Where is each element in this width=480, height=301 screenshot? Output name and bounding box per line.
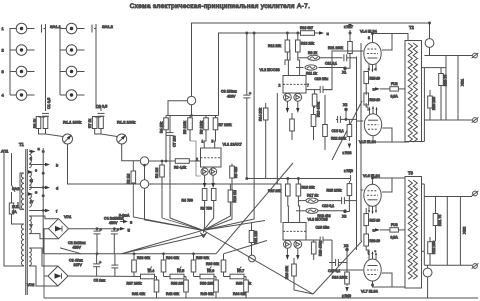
- svg-text:R13 20k: R13 20k: [301, 42, 314, 46]
- svg-text:II: II: [30, 157, 32, 161]
- resistor R18g: [323, 125, 328, 137]
- svg-text:АП1: АП1: [1, 150, 8, 154]
- wire VD2 gnd: [44, 254, 48, 298]
- pentode VL4: [364, 39, 381, 73]
- capacitor C7: [167, 133, 174, 136]
- svg-text:R16 20k: R16 20k: [302, 186, 315, 190]
- tap c: [29, 171, 31, 173]
- triode VL3: [283, 223, 306, 241]
- svg-text:I: I: [18, 202, 19, 206]
- capacitor C2: [94, 231, 101, 234]
- resistor R18a feed: [301, 31, 315, 36]
- wire fan 3: [170, 218, 204, 231]
- arrow k R38: [348, 144, 351, 149]
- svg-text:VL6: VL6: [208, 269, 214, 273]
- svg-text:R27-10: R27-10: [370, 219, 381, 223]
- svg-text:f: f: [56, 209, 58, 214]
- capacitor C3: [93, 264, 100, 267]
- T1 secondary winding a-c: [29, 150, 31, 168]
- resistor R7: [215, 116, 217, 119]
- potentiometer R39: [200, 274, 214, 279]
- svg-text:R10 1M: R10 1M: [233, 190, 237, 202]
- switch SA2: [12, 185, 16, 192]
- svg-text:T3: T3: [408, 171, 414, 176]
- svg-text:R4 15k: R4 15k: [160, 122, 164, 133]
- svg-text:R35 62k: R35 62k: [196, 256, 209, 260]
- svg-text:1: 1: [368, 249, 370, 253]
- capacitor C5: [111, 265, 118, 268]
- resistor R30 fb: [428, 96, 433, 108]
- wire VL3 pins: [287, 248, 297, 255]
- svg-text:a: a: [38, 146, 41, 151]
- wire to VL3: [149, 184, 281, 223]
- svg-text:R44 62k: R44 62k: [233, 292, 246, 296]
- resistor R2i: [43, 117, 48, 129]
- terminal XS1.2: [472, 117, 479, 122]
- wire to VL1: [145, 161, 201, 180]
- capacitor C10: [320, 86, 323, 93]
- wire out mid: [422, 56, 459, 121]
- capacitor C9: [98, 113, 105, 116]
- capacitor C13: [342, 197, 345, 204]
- svg-text:R17 1k: R17 1k: [307, 194, 318, 198]
- wire VL7 anode to T3: [373, 283, 409, 287]
- resistor R33: [132, 260, 137, 272]
- wire x277: [276, 93, 278, 184]
- svg-text:R7 120k: R7 120k: [219, 123, 232, 127]
- svg-text:+: +: [117, 227, 120, 232]
- wire VL5 screen: [382, 128, 392, 142]
- wire T2 sec bottom: [422, 120, 425, 142]
- jack XS1.4: [16, 90, 34, 101]
- resistor R42: [184, 280, 189, 292]
- svg-text:3: 3: [2, 69, 5, 74]
- wire C9 to pot: [100, 115, 102, 118]
- resistor R6: [205, 116, 207, 119]
- svg-text:XS1: XS1: [461, 79, 465, 86]
- svg-text:R7 1k: R7 1k: [88, 119, 92, 128]
- wire vertical x253: [204, 33, 255, 230]
- resistor R13: [296, 40, 301, 52]
- terminal XS2.1: [472, 191, 479, 196]
- potentiometer R37: [141, 274, 155, 279]
- svg-text:X4: X4: [344, 244, 348, 248]
- svg-text:R11 1k: R11 1k: [306, 72, 317, 76]
- svg-text:R24 100k: R24 100k: [332, 276, 347, 280]
- wire fan 2: [121, 230, 206, 254]
- svg-text:R29 75: R29 75: [444, 75, 448, 86]
- node dots misc: [429, 22, 431, 24]
- wire VL2 top pins: [288, 71, 299, 76]
- fuse FU1: [9, 203, 13, 214]
- svg-text:R42 62k: R42 62k: [166, 292, 179, 296]
- wire VL6 screen: [382, 178, 392, 192]
- wire T3 sec top: [422, 184, 425, 197]
- tap d: [29, 187, 48, 189]
- svg-text:R37 100k: R37 100k: [127, 282, 142, 286]
- svg-text:0,5A: 0,5A: [391, 95, 399, 99]
- wire out2 top: [424, 196, 472, 198]
- wire VD2 out: [68, 275, 141, 278]
- lamp HL2: [423, 268, 432, 277]
- resistor R9 cathode: [230, 166, 235, 178]
- svg-text:R43 62k: R43 62k: [201, 292, 214, 296]
- wire heater bus: [42, 148, 44, 254]
- node input circle 2: [140, 180, 148, 188]
- resistor R21: [348, 42, 353, 54]
- T1 secondary winding f: [29, 194, 31, 207]
- resistor R31 fb: [433, 214, 438, 226]
- svg-text:SA2: SA2: [12, 187, 19, 191]
- svg-text:FU3: FU3: [391, 223, 398, 227]
- wire vertical x244: [246, 33, 248, 179]
- svg-text:5: 5: [212, 140, 214, 144]
- svg-text:450V: 450V: [73, 246, 82, 250]
- resistor R26: [311, 242, 316, 254]
- resistor R15c: [290, 119, 295, 131]
- triode VL2: [283, 76, 306, 94]
- resistor R26 cath: [364, 93, 369, 105]
- svg-text:R21 100k: R21 100k: [328, 46, 343, 50]
- resistor R27 cath: [364, 214, 369, 226]
- svg-text:T1: T1: [19, 142, 25, 147]
- svg-text:4: 4: [2, 93, 5, 98]
- svg-text:к R40: к R40: [342, 294, 351, 298]
- svg-text:2: 2: [2, 48, 5, 53]
- wire gnd circle2: [145, 188, 204, 230]
- svg-text:+: +: [100, 227, 103, 232]
- svg-text:400V: 400V: [227, 95, 236, 99]
- wire left chain col2: [60, 29, 66, 96]
- wire x192 R5 to VL1: [190, 141, 201, 176]
- rectifier VD2: [48, 266, 68, 286]
- resistor R16: [296, 184, 301, 196]
- resistor R10 1M: [228, 190, 233, 202]
- resistor R14: [263, 108, 268, 120]
- wire feedback verticals: [357, 43, 362, 250]
- resistor R22: [347, 125, 352, 137]
- pentode VL6: [364, 180, 381, 214]
- resistor R23: [292, 264, 297, 276]
- svg-text:X3: X3: [342, 215, 346, 219]
- resistor R12: [285, 40, 290, 52]
- resistor R2b 1M: [131, 171, 136, 183]
- wire x166 down: [162, 130, 166, 165]
- svg-text:R14 20k: R14 20k: [259, 108, 263, 121]
- resistor R2 grid: [160, 165, 165, 177]
- svg-text:R5 120k: R5 120k: [183, 121, 187, 134]
- resistor R10i: [99, 117, 104, 129]
- rectifier VD1: [49, 219, 69, 239]
- svg-text:Схема электрическая-принципиал: Схема электрическая-принципиальная усили…: [130, 3, 311, 10]
- svg-text:C5 1мк: C5 1мк: [94, 279, 106, 283]
- potentiometer R38: [170, 274, 184, 279]
- terminal XS2.2: [472, 263, 479, 268]
- node filter circle: [187, 96, 195, 104]
- svg-text:R20 470k: R20 470k: [319, 241, 323, 256]
- svg-text:R25 100k: R25 100k: [327, 189, 342, 193]
- svg-text:к R38: к R38: [343, 151, 352, 155]
- svg-text:C11 0,1: C11 0,1: [325, 62, 337, 66]
- svg-text:SA1.1: SA1.1: [50, 24, 62, 29]
- wire R7 to VL1: [214, 130, 217, 148]
- wire VD1 gnd: [44, 229, 49, 254]
- node input circle 1: [140, 157, 148, 165]
- svg-text:R9 4k3: R9 4k3: [234, 167, 238, 178]
- svg-text:R30 260: R30 260: [432, 97, 436, 110]
- arrow k R40: [345, 287, 348, 292]
- svg-text:C13 0,1: C13 0,1: [322, 204, 334, 208]
- svg-text:C1 0,5: C1 0,5: [47, 98, 51, 109]
- resistor R32 fb: [428, 242, 433, 254]
- pentode VL5: [364, 106, 381, 140]
- svg-text:450V: 450V: [109, 221, 118, 225]
- svg-text:R34 62k: R34 62k: [166, 256, 179, 260]
- resistor R8 cathode: [211, 189, 216, 201]
- svg-text:XS2: XS2: [463, 227, 467, 234]
- wire bottom rail: [44, 297, 478, 299]
- switch SA1.2: [91, 25, 93, 33]
- svg-text:107V: 107V: [74, 263, 83, 267]
- svg-text:C9 0,5: C9 0,5: [96, 105, 107, 109]
- svg-text:R39 100k: R39 100k: [200, 282, 215, 286]
- svg-text:R1.2 100k: R1.2 100k: [117, 120, 135, 125]
- jack XS2.1: [66, 23, 84, 34]
- resistor R43: [214, 280, 219, 292]
- wire C10 to VL4 grid: [323, 51, 363, 90]
- wire B+ rail 2: [219, 33, 302, 116]
- resistor R34: [161, 260, 166, 272]
- wire fan 7: [332, 101, 362, 160]
- svg-text:u: u: [327, 31, 329, 36]
- wire to VL5 grid: [357, 120, 364, 122]
- arrow k R39: [350, 175, 352, 181]
- svg-text:u: u: [373, 229, 375, 233]
- svg-text:+: +: [99, 260, 102, 265]
- svg-text:c: c: [35, 168, 37, 173]
- wire mains to T1: [20, 173, 24, 209]
- svg-text:R31 75: R31 75: [438, 215, 442, 226]
- wire bus col2: [96, 24, 101, 111]
- svg-text:u: u: [130, 221, 132, 225]
- capacitor C11: [344, 54, 347, 61]
- svg-text:R21 1k5: R21 1k5: [254, 231, 258, 244]
- T1 secondary winding d-e: [29, 172, 31, 190]
- T1 secondary winding anode1: [29, 216, 31, 234]
- resistor R35: [191, 260, 196, 272]
- svg-text:C16 15м: C16 15м: [316, 226, 330, 230]
- node gnd circle: [249, 255, 256, 262]
- svg-text:u: u: [373, 88, 375, 92]
- svg-text:R25-10: R25-10: [370, 77, 381, 81]
- tap e: [29, 193, 31, 195]
- svg-text:VL5: VL5: [178, 269, 184, 273]
- svg-text:VD1: VD1: [64, 215, 71, 219]
- resistor R21k: [249, 231, 254, 243]
- wire VL7 screen: [382, 273, 392, 287]
- resistor R25 cath: [364, 72, 369, 84]
- svg-text:C3 47мк: C3 47мк: [69, 259, 83, 263]
- svg-text:R6 120k: R6 120k: [200, 121, 204, 134]
- lamp HL1: [425, 39, 434, 48]
- svg-text:7: 7: [307, 84, 309, 88]
- arrow k R37: [349, 30, 351, 38]
- svg-text:VL2 ECC88: VL2 ECC88: [260, 68, 280, 72]
- wire bias rail: [224, 241, 268, 254]
- svg-text:u: u: [128, 228, 131, 233]
- wire x267: [265, 103, 267, 179]
- wire pot2 down: [122, 144, 141, 161]
- resistor R4: [165, 116, 167, 119]
- svg-text:VL4: VL4: [148, 269, 154, 273]
- capacitor C8: [243, 95, 250, 98]
- svg-text:R6 1k: R6 1k: [308, 51, 317, 55]
- resistor R5h: [175, 159, 189, 164]
- wire star right: [204, 221, 266, 231]
- wire B+ rail top: [192, 23, 431, 96]
- svg-text:T2: T2: [409, 25, 415, 30]
- svg-text:R15 20k: R15 20k: [268, 189, 281, 193]
- wire gnd rail mid: [44, 253, 216, 255]
- wire R6 to VL1: [204, 130, 206, 148]
- svg-text:R28-10: R28-10: [370, 239, 381, 243]
- resistor R11i: [92, 117, 97, 129]
- resistor R36: [221, 260, 226, 272]
- wire VL4 anode to T2: [373, 34, 409, 43]
- wire fan 4: [204, 231, 314, 295]
- jack XS1.2: [16, 45, 34, 56]
- svg-text:C7 200: C7 200: [173, 136, 177, 147]
- svg-text:VL7: VL7: [238, 269, 244, 273]
- svg-text:0-1mA: 0-1mA: [119, 214, 130, 218]
- resistor R25: [347, 184, 352, 196]
- wire VD1 out2: [69, 228, 124, 230]
- jack XS2.2: [66, 45, 84, 56]
- wire bus col1: [45, 24, 47, 111]
- wire fan 1: [60, 248, 81, 254]
- triode VL1: [201, 148, 222, 167]
- resistor R9: [308, 55, 320, 60]
- svg-text:d: d: [56, 186, 58, 191]
- svg-text:VL4 EL34: VL4 EL34: [360, 30, 377, 34]
- svg-text:R41 62k: R41 62k: [132, 292, 145, 296]
- capacitor C4: [111, 231, 118, 234]
- wire fan 6: [216, 163, 293, 254]
- svg-text:FU2: FU2: [391, 82, 398, 86]
- svg-text:SA1.2: SA1.2: [102, 24, 114, 29]
- wire VL1 cathode pins: [205, 175, 214, 183]
- wire winding to VD2: [29, 248, 58, 286]
- potentiometer R1.1: [63, 134, 73, 144]
- svg-text:1: 1: [202, 140, 204, 144]
- svg-text:VD2: VD2: [27, 283, 34, 287]
- svg-text:R32 260: R32 260: [432, 241, 436, 254]
- resistor R3i: [36, 117, 41, 129]
- svg-text:3: 3: [368, 36, 370, 40]
- svg-text:III: III: [30, 179, 33, 183]
- wire VL2 region lines: [298, 56, 300, 58]
- svg-text:R18 0k7: R18 0k7: [300, 26, 313, 30]
- fuse FU3: [390, 228, 399, 232]
- capacitor C12: [338, 116, 341, 123]
- capacitor C14: [320, 237, 323, 244]
- tap f: [29, 210, 48, 212]
- svg-text:VL7 EL34: VL7 EL34: [361, 290, 378, 294]
- svg-text:+: +: [249, 91, 252, 96]
- svg-text:VL1 12AX7: VL1 12AX7: [223, 143, 242, 147]
- wire out2 bottom: [424, 264, 472, 266]
- svg-text:2: 2: [279, 84, 281, 88]
- wire VL6 anode to T3: [373, 178, 409, 184]
- svg-text:0,5A: 0,5A: [391, 236, 399, 240]
- wire VL2 anodes up: [285, 50, 290, 66]
- svg-text:R8 750: R8 750: [201, 207, 212, 211]
- fuse FU2: [390, 87, 399, 91]
- jack XS2.4: [66, 90, 84, 101]
- svg-text:R22 160k: R22 160k: [331, 137, 346, 141]
- wire winding to VD1: [29, 216, 58, 239]
- svg-text:R2 1M: R2 1M: [155, 168, 159, 178]
- wire pot links R: [95, 117, 117, 137]
- wire C14 to VL7 grid: [332, 240, 363, 270]
- svg-text:C2 2x22мк: C2 2x22мк: [68, 241, 86, 245]
- svg-text:к R39: к R39: [344, 169, 353, 173]
- svg-text:e: e: [35, 190, 38, 195]
- capacitor C1: [42, 113, 49, 116]
- svg-text:b: b: [56, 163, 59, 168]
- wire fan 5: [313, 241, 362, 294]
- wire left chain col1: [10, 29, 16, 96]
- wire VL4 screen: [382, 34, 392, 51]
- potentiometer R1.2: [117, 134, 127, 144]
- wire pot1 down: [68, 144, 141, 184]
- wire circle down: [166, 101, 219, 116]
- jack XS2.3: [66, 66, 84, 77]
- resistor R41: [154, 280, 159, 292]
- T1 primary winding: [21, 173, 24, 209]
- terminal XS1.1: [472, 53, 479, 58]
- svg-text:R23 20k: R23 20k: [285, 266, 289, 279]
- svg-text:IV: IV: [30, 200, 34, 204]
- svg-text:c: c: [375, 249, 377, 253]
- wire C1 to pot: [45, 115, 47, 118]
- tap b: [29, 164, 48, 166]
- resistor R5: [189, 116, 191, 119]
- svg-text:R26-10: R26-10: [370, 98, 381, 102]
- svg-text:R12 20k: R12 20k: [268, 44, 281, 48]
- resistor R44: [244, 280, 249, 292]
- node X3: [344, 210, 347, 213]
- resistor R15: [286, 184, 291, 196]
- svg-text:R2 1M: R2 1M: [126, 174, 130, 184]
- wire out2 mid: [422, 197, 461, 266]
- resistor R24: [345, 272, 350, 284]
- switch SA1.1: [41, 25, 43, 33]
- svg-text:R4 750: R4 750: [182, 199, 193, 203]
- tap a: [29, 151, 34, 153]
- resistor R28 cath: [364, 234, 369, 246]
- capacitor C15: [336, 259, 339, 266]
- node X1: [344, 67, 347, 70]
- svg-text:к R37: к R37: [344, 25, 353, 29]
- svg-text:C10 15м: C10 15м: [315, 77, 329, 81]
- resistor R20b: [306, 208, 318, 213]
- node X2: [345, 108, 348, 111]
- svg-text:V: V: [30, 224, 33, 228]
- pentode VL7: [364, 251, 381, 285]
- svg-text:C8 150мк: C8 150мк: [221, 90, 237, 94]
- wire to VL6 grid: [357, 199, 362, 201]
